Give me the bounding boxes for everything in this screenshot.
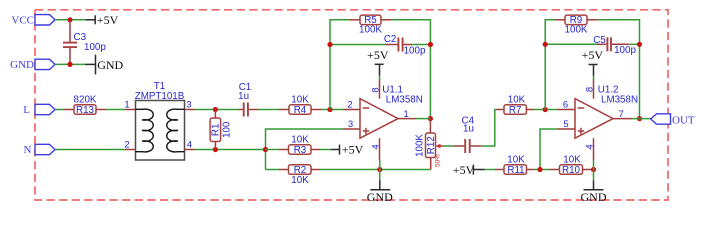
wire pin8 stage2 bbox=[593, 76, 595, 80]
node C2 left junction bbox=[327, 42, 332, 47]
svg-text:+5V: +5V bbox=[342, 143, 364, 157]
svg-text:R11: R11 bbox=[507, 165, 524, 176]
resistor R9 100K bbox=[555, 15, 597, 36]
wire pin4 stage1 bbox=[379, 161, 381, 170]
capacitor C1 1u bbox=[238, 82, 258, 117]
wire ground row stage1 bbox=[320, 169, 431, 171]
wire pin3 node vertical bbox=[266, 129, 344, 170]
svg-text:10K: 10K bbox=[563, 154, 581, 165]
wire wiper to C4 bbox=[443, 145, 454, 147]
svg-text:R7: R7 bbox=[509, 105, 522, 116]
svg-text:2: 2 bbox=[124, 139, 129, 150]
node pin4 ground junction stage2 bbox=[591, 167, 596, 172]
capacitor C3 bbox=[63, 20, 106, 65]
transformer T1 ZMPT101B bbox=[124, 81, 194, 160]
resistor R3 10K bbox=[279, 134, 320, 156]
svg-text:GND: GND bbox=[97, 58, 123, 72]
resistor R1 100 bbox=[210, 110, 232, 150]
node output1 junction bbox=[428, 116, 433, 121]
svg-text:8: 8 bbox=[371, 87, 382, 92]
power +5V flag above pin8 stage1 bbox=[367, 48, 389, 76]
power +5V flag top-left bbox=[86, 13, 119, 27]
ground symbol stage1 bbox=[367, 170, 393, 204]
svg-text:1u: 1u bbox=[238, 91, 249, 102]
wire L to R13 bbox=[55, 109, 64, 111]
capacitor C4 1u bbox=[454, 116, 482, 154]
wire C2 row left bbox=[330, 44, 385, 46]
wire feedback2 loop bbox=[545, 20, 555, 110]
wire R7 to pin6 bbox=[534, 109, 558, 111]
node pin4 ground junction stage1 bbox=[377, 167, 382, 172]
wire output1 bbox=[416, 118, 430, 120]
svg-text:8: 8 bbox=[585, 87, 596, 92]
node R1 bottom junction bbox=[213, 147, 218, 152]
node GND-C3 junction bbox=[67, 62, 72, 67]
node output2 junction bbox=[637, 116, 642, 121]
svg-text:10K: 10K bbox=[291, 134, 309, 145]
svg-text:6: 6 bbox=[563, 99, 568, 110]
node feedback2 left junction bbox=[543, 107, 548, 112]
wire C5 row right bbox=[629, 43, 640, 45]
svg-text:LM358N: LM358N bbox=[386, 95, 423, 106]
wire R9 to right vertical bbox=[597, 20, 640, 119]
svg-text:R13: R13 bbox=[76, 105, 95, 116]
svg-text:4: 4 bbox=[371, 144, 382, 149]
potentiometer R12 100K bbox=[415, 119, 443, 170]
svg-text:4: 4 bbox=[187, 139, 192, 150]
resistor R11 10K bbox=[495, 154, 534, 176]
node C2 right junction bbox=[428, 42, 433, 47]
node R3 junction bbox=[263, 147, 268, 152]
power +5V flag at R11 bbox=[453, 163, 485, 177]
wire C1 to R4 bbox=[258, 109, 279, 111]
svg-text:R4: R4 bbox=[294, 105, 307, 116]
op-amp U1.2 LM358N bbox=[558, 80, 639, 161]
ground symbol stage2 bbox=[581, 170, 607, 204]
svg-text:10K: 10K bbox=[508, 94, 526, 105]
wire T1 pin4 row bbox=[195, 149, 266, 151]
wire R5 to right vertical bbox=[391, 20, 430, 119]
wire R4 to opamp pin2 bbox=[321, 109, 343, 111]
svg-text:820K: 820K bbox=[74, 94, 97, 105]
svg-text:OUT: OUT bbox=[672, 115, 695, 127]
wire pin5 node bbox=[540, 129, 558, 170]
svg-text:100p: 100p bbox=[404, 45, 426, 56]
svg-text:C2: C2 bbox=[384, 34, 397, 45]
wire C4 up to R7 bbox=[481, 110, 496, 147]
svg-text:3: 3 bbox=[186, 99, 191, 110]
svg-text:2: 2 bbox=[347, 99, 352, 110]
wire C2 row right bbox=[412, 44, 430, 46]
node C5 right junction bbox=[637, 42, 642, 47]
svg-text:10K: 10K bbox=[291, 175, 309, 186]
svg-text:R12: R12 bbox=[426, 136, 437, 154]
net port L bbox=[23, 104, 55, 116]
op-amp U1.1 LM358N bbox=[343, 80, 423, 161]
svg-text:100: 100 bbox=[222, 121, 233, 138]
wire R13 to T1 pin1 bbox=[106, 109, 126, 111]
wire VCC row bbox=[55, 19, 86, 21]
net flag GND top-left bbox=[10, 59, 55, 71]
svg-text:4: 4 bbox=[585, 144, 596, 149]
svg-text:C5: C5 bbox=[593, 35, 606, 46]
wire T1 pin3 to C1 bbox=[195, 109, 239, 111]
wire C5 row left bbox=[545, 43, 597, 45]
svg-text:1: 1 bbox=[404, 109, 409, 120]
resistor R13 820K bbox=[64, 94, 106, 116]
svg-text:100p: 100p bbox=[84, 42, 106, 53]
svg-text:LM358N: LM358N bbox=[601, 95, 638, 106]
svg-text:3: 3 bbox=[348, 119, 353, 130]
svg-text:R3: R3 bbox=[294, 145, 307, 156]
svg-text:1: 1 bbox=[124, 99, 129, 110]
resistor R10 10K bbox=[550, 154, 594, 176]
wire output2 bbox=[632, 118, 651, 120]
wire R3 left bbox=[266, 149, 280, 151]
svg-text:100K: 100K bbox=[565, 25, 588, 36]
svg-text:5: 5 bbox=[563, 119, 568, 130]
svg-text:GND: GND bbox=[10, 59, 34, 71]
node feedback1 left junction bbox=[327, 107, 332, 112]
svg-text:N: N bbox=[24, 144, 32, 156]
svg-text:R1: R1 bbox=[211, 124, 222, 137]
power +5V flag above pin8 stage2 bbox=[582, 48, 604, 76]
resistor R7 10K bbox=[496, 94, 534, 116]
svg-text:+5V: +5V bbox=[582, 48, 604, 62]
svg-text:GND: GND bbox=[367, 190, 393, 204]
power GND flag top-left bbox=[85, 55, 124, 75]
resistor R4 10K bbox=[279, 94, 321, 116]
resistor R2 10K bbox=[266, 165, 320, 186]
capacitor C2 100p bbox=[384, 34, 426, 56]
capacitor C5 100p bbox=[593, 35, 636, 56]
net port N bbox=[24, 144, 55, 156]
node VCC-C3 junction bbox=[67, 17, 72, 22]
svg-text:R10: R10 bbox=[562, 165, 581, 176]
svg-text:L: L bbox=[23, 104, 30, 116]
svg-text:+5V: +5V bbox=[367, 48, 389, 62]
svg-text:7: 7 bbox=[619, 109, 624, 120]
svg-text:10K: 10K bbox=[507, 154, 525, 165]
svg-text:50%: 50% bbox=[435, 154, 442, 167]
svg-text:GND: GND bbox=[581, 190, 607, 204]
power +5V flag at R3 bbox=[331, 143, 364, 157]
net flag VCC bbox=[11, 14, 55, 26]
wire pin4 stage2 bbox=[593, 161, 595, 170]
svg-text:1u: 1u bbox=[463, 123, 474, 134]
wire N to T1 pin2 bbox=[55, 149, 126, 151]
wire pin8 stage1 bbox=[379, 76, 381, 80]
svg-text:100K: 100K bbox=[359, 25, 382, 36]
svg-text:100p: 100p bbox=[614, 45, 636, 56]
svg-text:+5V: +5V bbox=[453, 163, 475, 177]
wire GND row bbox=[55, 63, 85, 65]
wire feedback1 loop bbox=[330, 20, 350, 110]
svg-text:+5V: +5V bbox=[97, 13, 119, 27]
node R1 top junction bbox=[213, 107, 218, 112]
wire R11 to R10 bbox=[534, 169, 550, 171]
node C5 left junction bbox=[543, 42, 548, 47]
node pin5 bottom junction bbox=[537, 167, 542, 172]
wire +5V to R11 bbox=[485, 169, 495, 171]
resistor R5 100K bbox=[350, 15, 391, 36]
svg-text:VCC: VCC bbox=[11, 14, 34, 26]
svg-text:100K: 100K bbox=[415, 134, 426, 157]
wire R3 to +5V bbox=[320, 149, 331, 151]
svg-text:10K: 10K bbox=[291, 94, 309, 105]
net flag OUT bbox=[651, 114, 695, 127]
